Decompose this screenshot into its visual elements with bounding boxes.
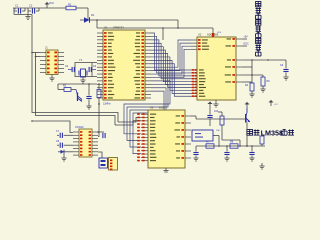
svg-text:+5V: +5V: [244, 36, 249, 39]
pin U2 L9: [191, 81, 197, 83]
wire drop to U2 top pin: [212, 28, 214, 37]
wire U4 out: [213, 135, 219, 137]
power symbol P2: [246, 104, 248, 108]
pin U1 L14: [97, 76, 103, 78]
wire drop x163: [162, 28, 164, 40]
pin U2 L13: [191, 92, 197, 94]
pin U1 L13: [97, 73, 103, 75]
resistor R2: [57, 84, 59, 90]
resistor R8: [230, 144, 238, 148]
wire bus to J1 pin1: [32, 52, 40, 54]
pin U3 R1: [185, 115, 191, 117]
pin U3 L10: [141, 143, 148, 145]
svg-text:C1: C1: [15, 4, 19, 8]
ground under R5: [262, 86, 264, 89]
wire drop x178: [177, 20, 179, 28]
pin U3 R7: [185, 157, 191, 159]
power symbol P3: [270, 102, 272, 106]
svg-text:CON10: CON10: [75, 126, 84, 129]
pin U1 R17: [145, 87, 151, 89]
capacitor C5 reset: [88, 84, 90, 96]
wire J2 to B1: [108, 161, 109, 163]
pin J3-left 8: [73, 154, 79, 156]
op-amp U3 body (8155): [148, 110, 185, 168]
pin U1 R19: [145, 94, 151, 96]
pin J1-right 2: [58, 56, 64, 58]
svg-text:8155: 8155: [159, 106, 165, 110]
pin J1-right 6: [58, 72, 64, 74]
pin J1-right 3: [58, 60, 64, 62]
capacitor C3 left of crystal: [71, 67, 73, 72]
pin U2 R4: [236, 66, 242, 68]
wire net y140: [222, 139, 240, 141]
pin U3 L11: [141, 146, 148, 148]
pin J3-left 2: [73, 134, 79, 136]
pin U2 R1: [236, 38, 242, 40]
pin U3 R4: [185, 136, 191, 138]
pin U1 L16: [97, 83, 103, 85]
pin U1 L19: [97, 94, 103, 96]
pin U2 TL3: [191, 45, 197, 47]
wire U3 pin1 to Q2 base: [191, 115, 196, 117]
pin J1-left 4: [40, 64, 46, 66]
pin U1 R13: [145, 73, 151, 75]
pin U1 L3: [97, 39, 103, 41]
ground under U3: [165, 168, 167, 171]
transistor Q2: [245, 114, 247, 123]
pin U3 L6: [141, 130, 148, 132]
pin U3 R5: [185, 143, 191, 145]
pin J3-left 5: [73, 144, 79, 146]
pin U1 L12: [97, 70, 103, 72]
pin U1 R1: [145, 32, 151, 34]
wire net y75: [242, 74, 263, 76]
pin U2 L10: [191, 84, 197, 86]
pin U1 R12: [145, 70, 151, 72]
svg-text:U1: U1: [104, 26, 108, 30]
pin U1 R4: [145, 42, 151, 44]
pin U3 R3: [185, 129, 191, 131]
capacitor C9 near J3 top: [98, 131, 104, 133]
pin U1 R7: [145, 53, 151, 55]
capacitor C6: [285, 60, 287, 69]
wire wrap bus to U3: [124, 81, 170, 134]
pin U1 L11: [97, 66, 103, 68]
pin J1-left 3: [40, 60, 46, 62]
pin U3 L5: [141, 126, 148, 128]
pin J1-left 1: [40, 52, 46, 54]
pin U2 L12: [191, 89, 197, 91]
ground under C11: [195, 156, 197, 159]
pin U1 L8: [97, 56, 103, 58]
wire Q2 emitter down: [246, 123, 248, 147]
pin J3-left 3: [73, 138, 79, 140]
crystal Y1: [81, 69, 86, 77]
pin J3-right 5: [92, 144, 98, 146]
caption LM358: [247, 130, 253, 136]
pin U2 L14: [191, 95, 197, 97]
svg-text:U2: U2: [198, 33, 202, 37]
pin U1 R14: [145, 76, 151, 78]
wire reset net y84: [58, 83, 97, 85]
pin U3 L12: [141, 150, 148, 152]
pin U2 L7: [191, 75, 197, 77]
wire R6 top: [221, 112, 223, 116]
wire cluster down: [63, 154, 65, 158]
wire drop x97: [96, 20, 98, 28]
op-amp U1 body (MCU AT89C51): [103, 30, 145, 100]
pin U2 TL4: [191, 48, 197, 50]
capacitor C2: [27, 8, 29, 11]
pin U1 R2: [145, 35, 151, 37]
pin U1 L2: [97, 35, 103, 37]
wire bus B left: [36, 53, 116, 126]
wire net rail y28: [97, 27, 213, 29]
ground under C13: [226, 156, 228, 159]
pin U1 R16: [145, 83, 151, 85]
pin J3-right 7: [92, 151, 98, 153]
pin U3 L2: [141, 117, 148, 119]
pin U2 TL1: [191, 39, 197, 41]
capacitor C11: [195, 146, 197, 152]
pin U2 R2: [236, 45, 242, 47]
pin U1 L1: [97, 32, 103, 34]
pin J3-right 2: [92, 134, 98, 136]
capacitor C1: [13, 8, 15, 11]
pin J1-right 1: [58, 52, 64, 54]
pin J3-left 4: [73, 141, 79, 143]
pin U3 L9: [141, 140, 148, 142]
pin J1-right 4: [58, 64, 64, 66]
pin U1 L4: [97, 42, 103, 44]
svg-text:10K: 10K: [216, 130, 220, 132]
resistor R6 vertical left: [221, 128, 223, 140]
pin J3-right 3: [92, 138, 98, 140]
wire net y146: [196, 145, 265, 147]
wire J3 rows to cluster: [68, 134, 73, 136]
pin J1-left 5: [40, 68, 46, 70]
wire J3 to J2: [98, 152, 102, 158]
wire bus A left: [32, 15, 118, 123]
wire cap bottom tie: [13, 11, 15, 15]
svg-text:Y1: Y1: [79, 58, 83, 62]
pin U1 L15: [97, 80, 103, 82]
svg-text:EOC: EOC: [244, 43, 249, 46]
diagram box B1: [99, 158, 108, 168]
pin J3-right 8: [92, 154, 98, 156]
capacitor C10: [209, 108, 211, 115]
op-amp U2 body (ADC0809): [197, 37, 236, 100]
wire bus A into U3 pin: [118, 118, 141, 123]
power VCC symbol: [46, 4, 48, 8]
pin U1 L18: [97, 90, 103, 92]
pin U2 R3: [236, 59, 242, 61]
wire R3 down: [98, 98, 100, 135]
svg-text:U3: U3: [150, 106, 154, 110]
ground under J1: [51, 75, 53, 79]
pin U2 L5: [191, 69, 197, 71]
resistor R9 right: [261, 144, 263, 146]
pin U1 L10: [97, 63, 103, 65]
pin J3-right 1: [92, 131, 98, 133]
pin J1-left 2: [40, 56, 46, 58]
pin U1 R9: [145, 59, 151, 61]
pin U3 L13: [141, 153, 148, 155]
svg-text:AT89C51: AT89C51: [113, 26, 124, 30]
connector J2 header: [109, 158, 118, 171]
pin U2 top: [212, 33, 214, 37]
pin U3 R6: [185, 150, 191, 152]
resistor R5 vertical: [262, 75, 264, 77]
pin U1 R8: [145, 56, 151, 58]
capacitor C8: [57, 144, 59, 146]
pin U1 L7: [97, 53, 103, 55]
wire bus to J1 pin2: [36, 56, 41, 58]
pin U1 R10: [145, 63, 151, 65]
svg-text:104: 104: [214, 110, 219, 113]
ground under crystal: [82, 77, 84, 80]
pin U1 R15: [145, 80, 151, 82]
pin U2 L11: [191, 87, 197, 89]
caption vertical chinese glyphs: [256, 2, 261, 7]
transistor Q1: [77, 93, 79, 102]
pin U1 L9: [97, 59, 103, 61]
ground under caps: [27, 15, 29, 17]
pin J3-left 6: [73, 148, 79, 150]
resistor R1: [62, 7, 66, 9]
pin U3 L1: [141, 113, 148, 115]
svg-text:C2: C2: [29, 4, 33, 8]
pin U2 R5: [236, 74, 242, 76]
resistor R7: [206, 144, 214, 148]
pin U3 L7: [141, 133, 148, 135]
pin J3-left 7: [73, 151, 79, 153]
capacitor C7: [57, 134, 59, 136]
pin U1 R11: [145, 66, 151, 68]
pin U2 bottom + ground: [215, 100, 217, 104]
connector J1: [46, 50, 58, 75]
svg-text:VCC: VCC: [49, 2, 54, 5]
ground under C5: [86, 105, 91, 107]
pin U2 L8: [191, 78, 197, 80]
wire bus mesh U1 to U2: [151, 33, 191, 70]
ground under C12: [251, 156, 253, 159]
wire net y60: [242, 59, 286, 61]
ground under C6: [283, 76, 288, 78]
pin U3 L4: [141, 123, 148, 125]
svg-text:D1: D1: [91, 13, 95, 17]
opto U4 box: [192, 130, 213, 141]
pin U1 L20: [97, 97, 103, 99]
wire crystal loop: [75, 63, 97, 77]
wire bus B into U3 pin: [115, 121, 141, 125]
wire bus C branch: [32, 121, 73, 133]
ground under R4: [251, 91, 253, 94]
pin U1 R18: [145, 90, 151, 92]
svg-text:12MHz: 12MHz: [103, 103, 111, 106]
pin U1 L17: [97, 87, 103, 89]
wire net y67: [242, 66, 252, 68]
ground cluster: [61, 157, 66, 159]
pin U1 L6: [97, 49, 103, 51]
pin U3 L3: [141, 120, 148, 122]
pin U3 L15: [141, 160, 148, 162]
pin U2 R6: [236, 81, 242, 83]
pin J1-left 6: [40, 72, 46, 74]
resistor R3 vertical: [98, 84, 100, 90]
pin U1 R5: [145, 46, 151, 48]
pin U3 L8: [141, 136, 148, 138]
pin U2 L6: [191, 72, 197, 74]
wire small marks bottom: [261, 163, 263, 166]
capacitor C12: [251, 146, 253, 152]
wire VCC rail top-left: [13, 7, 62, 9]
pin J3-right 4: [92, 141, 98, 143]
pin J1-right 5: [58, 68, 64, 70]
wire bus x252: [251, 60, 253, 83]
pin U2 TL2: [191, 42, 197, 44]
resistor R4 vertical: [250, 83, 254, 91]
diode D2: [58, 151, 61, 153]
pin U1 R6: [145, 49, 151, 51]
diode D1: [80, 19, 84, 21]
wire R1 to D1: [87, 8, 89, 20]
capacitor C4 right of crystal: [88, 67, 90, 72]
wire net top rail y20: [97, 19, 178, 21]
connector J3: [79, 129, 92, 157]
pin J3-left 1: [73, 131, 79, 133]
pin U3 R2: [185, 122, 191, 124]
wire bus mesh upper group: [151, 40, 191, 67]
pin U1 L5: [97, 46, 103, 48]
pin U1 R20: [145, 97, 151, 99]
wire +5V stub 2: [242, 45, 247, 47]
capacitor C13: [226, 146, 228, 152]
wire x99 joins J3 right: [98, 131, 100, 133]
svg-text:R1: R1: [68, 3, 72, 7]
wire into J2 area: [98, 134, 99, 137]
wire net y82: [242, 81, 252, 83]
wire +5V stub 1: [242, 38, 247, 40]
pin J3-right 6: [92, 148, 98, 150]
pin U1 R3: [145, 39, 151, 41]
pin U3 L14: [141, 156, 148, 158]
power symbol P1: [209, 104, 211, 109]
